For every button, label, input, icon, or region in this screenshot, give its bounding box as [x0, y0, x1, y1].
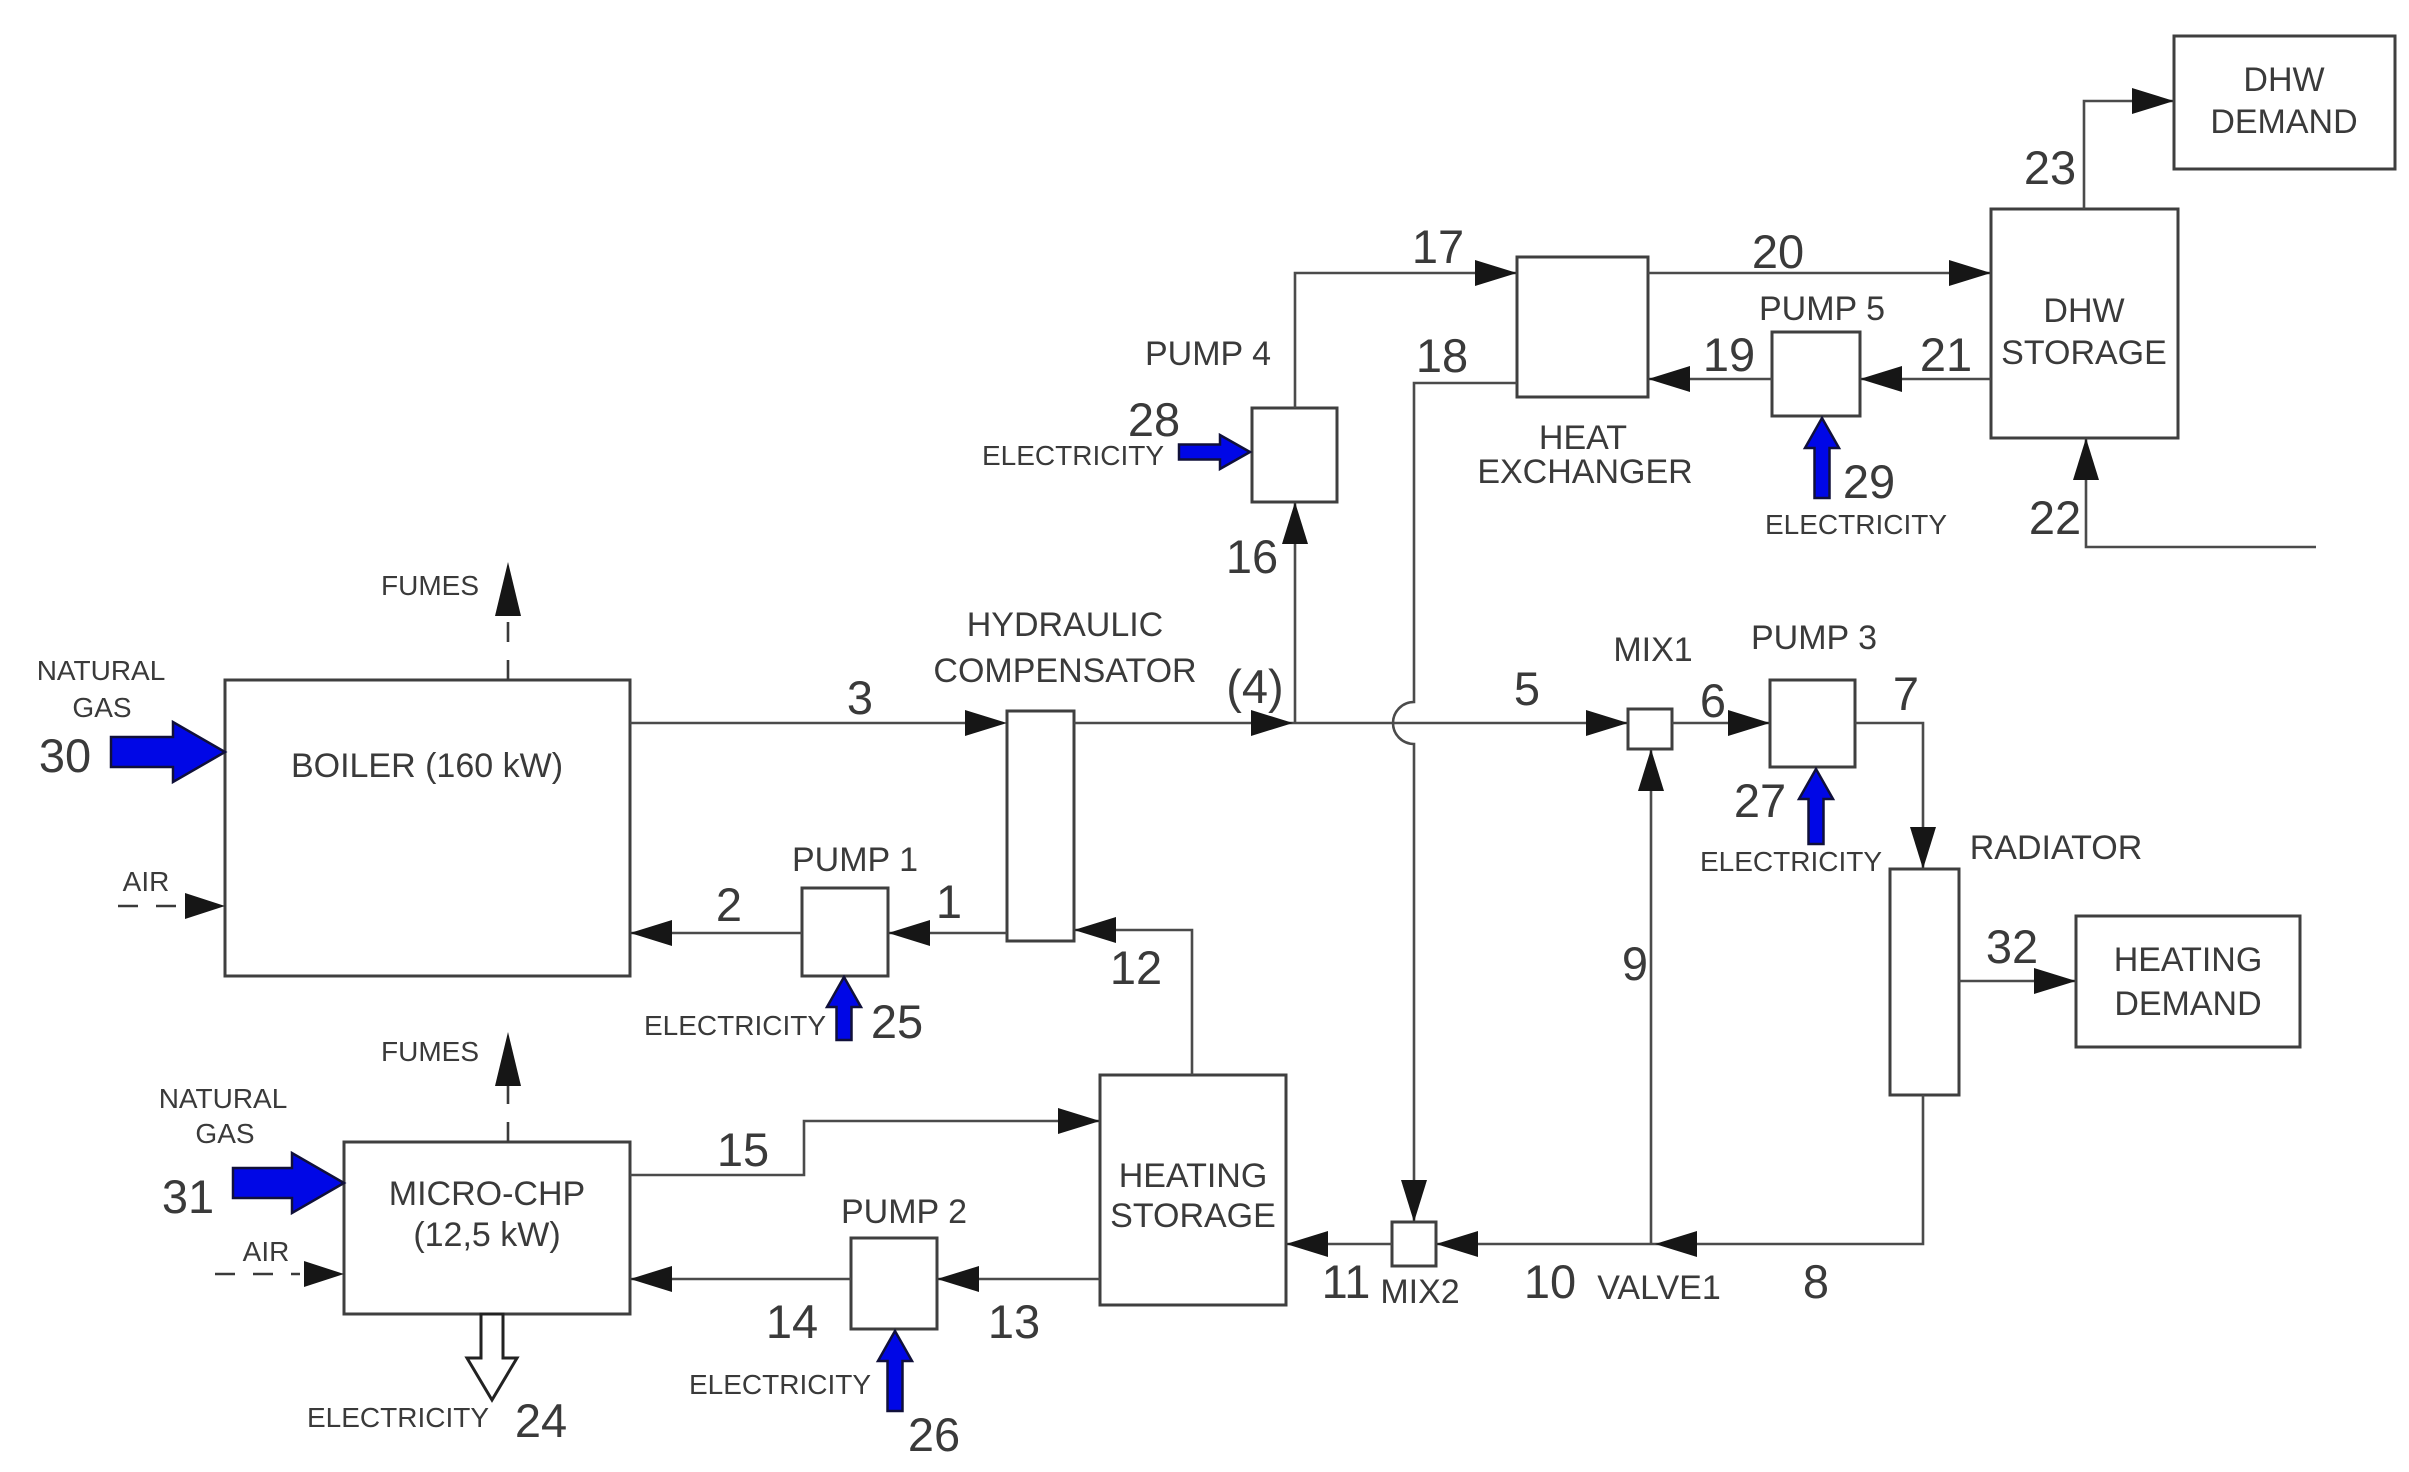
wire 17 pump 4 to heat exchanger	[1295, 220, 1517, 408]
svg-text:6: 6	[1700, 674, 1726, 727]
svg-text:26: 26	[908, 1408, 960, 1461]
svg-text:16: 16	[1226, 530, 1278, 583]
svg-text:NATURAL: NATURAL	[37, 655, 166, 686]
svg-text:ELECTRICITY: ELECTRICITY	[1700, 846, 1882, 877]
wire 4 compensator to MIX1	[1074, 660, 1628, 736]
svg-text:14: 14	[766, 1295, 818, 1348]
air arrow micro-chp	[215, 1236, 344, 1287]
svg-text:23: 23	[2024, 141, 2076, 194]
radiator	[1890, 829, 2142, 1095]
electricity output arrow 24	[307, 1314, 567, 1447]
DHW demand box	[2174, 36, 2395, 169]
svg-text:STORAGE: STORAGE	[1110, 1197, 1276, 1235]
svg-text:28: 28	[1128, 393, 1180, 446]
wire 8-10 radiator down to MIX2	[1436, 1095, 1923, 1308]
wire 18 heat exchanger down to MIX2 with hop	[1393, 329, 1517, 1222]
heating storage box	[1100, 1075, 1286, 1305]
electricity arrow 27 into pump3	[1700, 769, 1882, 877]
svg-text:12: 12	[1110, 941, 1162, 994]
svg-text:8: 8	[1803, 1255, 1829, 1308]
svg-text:PUMP 1: PUMP 1	[792, 841, 918, 879]
electricity arrow 28 into pump4	[982, 393, 1250, 471]
svg-text:27: 27	[1734, 774, 1786, 827]
electricity arrow 29 into pump5	[1765, 418, 1947, 540]
wire 14 pump2 to micro-chp	[630, 1266, 851, 1348]
svg-text:7: 7	[1893, 667, 1919, 720]
svg-text:DHW: DHW	[2243, 61, 2324, 99]
svg-text:15: 15	[717, 1123, 769, 1176]
wire 7 pump3 to radiator	[1855, 667, 1936, 869]
svg-text:13: 13	[988, 1295, 1040, 1348]
natural gas arrow 30 into boiler	[37, 655, 225, 782]
svg-text:HEATING: HEATING	[1119, 1157, 1268, 1195]
wire 2 pump1 to boiler	[630, 878, 802, 946]
pump P1	[792, 841, 918, 976]
air arrow boiler	[118, 866, 225, 919]
hydraulic compensator	[933, 606, 1196, 941]
svg-text:PUMP 4: PUMP 4	[1145, 335, 1271, 373]
wire 9 up to MIX1	[1622, 749, 1664, 1244]
svg-text:STORAGE: STORAGE	[2001, 334, 2167, 372]
boiler box	[225, 680, 630, 976]
mixer MIX2	[1380, 1222, 1459, 1311]
svg-text:DEMAND: DEMAND	[2114, 985, 2261, 1023]
fumes arrow micro-chp	[381, 1032, 521, 1142]
wire 16 up to pump 4	[1226, 502, 1308, 723]
svg-text:VALVE1: VALVE1	[1597, 1269, 1720, 1307]
svg-text:32: 32	[1986, 920, 2038, 973]
svg-text:ELECTRICITY: ELECTRICITY	[307, 1402, 489, 1433]
svg-text:19: 19	[1703, 328, 1755, 381]
wire 12 heating storage to compensator	[1074, 917, 1192, 1075]
wire 23 DHW storage to DHW demand	[2024, 88, 2174, 209]
heating demand box	[2076, 916, 2300, 1047]
electricity arrow 25 into pump1	[644, 977, 923, 1048]
wire 1 compensator to pump1	[888, 875, 1007, 946]
svg-text:MIX2: MIX2	[1380, 1273, 1459, 1311]
svg-text:(12,5 kW): (12,5 kW)	[413, 1216, 560, 1254]
wire 3 boiler to compensator	[630, 671, 1007, 736]
pump P2	[841, 1193, 967, 1329]
svg-text:22: 22	[2029, 491, 2081, 544]
svg-text:17: 17	[1412, 220, 1464, 273]
wire 21 DHW storage to pump5	[1860, 328, 1991, 392]
svg-text:21: 21	[1920, 328, 1972, 381]
micro-chp box	[344, 1142, 630, 1314]
svg-text:24: 24	[515, 1394, 567, 1447]
svg-text:RADIATOR: RADIATOR	[1970, 829, 2143, 867]
svg-text:FUMES: FUMES	[381, 570, 479, 601]
svg-text:31: 31	[162, 1170, 214, 1223]
natural gas arrow 31 into micro-chp	[159, 1083, 344, 1223]
pump P5	[1759, 290, 1885, 416]
wire 19 pump5 to heat exchanger	[1648, 328, 1772, 392]
svg-text:MIX1: MIX1	[1613, 631, 1692, 669]
svg-text:MICRO-CHP: MICRO-CHP	[389, 1175, 585, 1213]
svg-text:9: 9	[1622, 937, 1648, 990]
DHW storage box	[1991, 209, 2178, 438]
svg-text:HEATING: HEATING	[2114, 941, 2263, 979]
svg-text:30: 30	[39, 729, 91, 782]
wire 32 radiator to heating demand	[1959, 920, 2076, 994]
svg-text:GAS: GAS	[72, 692, 131, 723]
svg-text:NATURAL: NATURAL	[159, 1083, 288, 1114]
wire 15 micro-chp to heating storage	[630, 1108, 1100, 1176]
svg-text:11: 11	[1322, 1255, 1371, 1308]
svg-text:DHW: DHW	[2043, 292, 2124, 330]
svg-text:25: 25	[871, 995, 923, 1048]
wire 20 heat exchanger to DHW storage	[1648, 225, 1991, 286]
svg-text:(4): (4)	[1226, 660, 1283, 713]
svg-text:1: 1	[936, 875, 962, 928]
fumes arrow boiler	[381, 562, 521, 680]
pump P4	[1145, 335, 1337, 502]
svg-text:FUMES: FUMES	[381, 1036, 479, 1067]
svg-text:GAS: GAS	[195, 1118, 254, 1149]
svg-text:5: 5	[1514, 662, 1540, 715]
electricity arrow 26 into pump2	[689, 1331, 960, 1461]
svg-text:BOILER (160 kW): BOILER (160 kW)	[291, 747, 563, 785]
pump P3	[1751, 619, 1877, 767]
svg-text:COMPENSATOR: COMPENSATOR	[933, 652, 1196, 690]
wire 11 MIX2 to heating storage	[1286, 1231, 1392, 1308]
svg-text:PUMP 3: PUMP 3	[1751, 619, 1877, 657]
svg-text:EXCHANGER: EXCHANGER	[1477, 453, 1692, 491]
wire 6 MIX1 to pump3	[1672, 674, 1770, 736]
svg-text:2: 2	[716, 878, 742, 931]
svg-text:ELECTRICITY: ELECTRICITY	[1765, 509, 1947, 540]
svg-text:18: 18	[1416, 329, 1468, 382]
svg-text:ELECTRICITY: ELECTRICITY	[689, 1369, 871, 1400]
svg-text:PUMP 5: PUMP 5	[1759, 290, 1885, 328]
svg-text:20: 20	[1752, 225, 1804, 278]
svg-text:PUMP 2: PUMP 2	[841, 1193, 967, 1231]
svg-text:ELECTRICITY: ELECTRICITY	[644, 1010, 826, 1041]
svg-text:AIR: AIR	[123, 866, 170, 897]
svg-text:10: 10	[1524, 1255, 1576, 1308]
heat exchanger box	[1477, 257, 1692, 491]
svg-text:HEAT: HEAT	[1539, 419, 1627, 457]
svg-text:AIR: AIR	[243, 1236, 290, 1267]
svg-text:HYDRAULIC: HYDRAULIC	[967, 606, 1163, 644]
svg-text:29: 29	[1843, 455, 1895, 508]
svg-text:DEMAND: DEMAND	[2210, 103, 2357, 141]
wire 22 into DHW storage bottom	[2029, 438, 2316, 547]
mixer MIX1	[1613, 631, 1692, 749]
svg-text:3: 3	[847, 671, 873, 724]
wire 13 heating storage to pump2	[937, 1266, 1100, 1348]
